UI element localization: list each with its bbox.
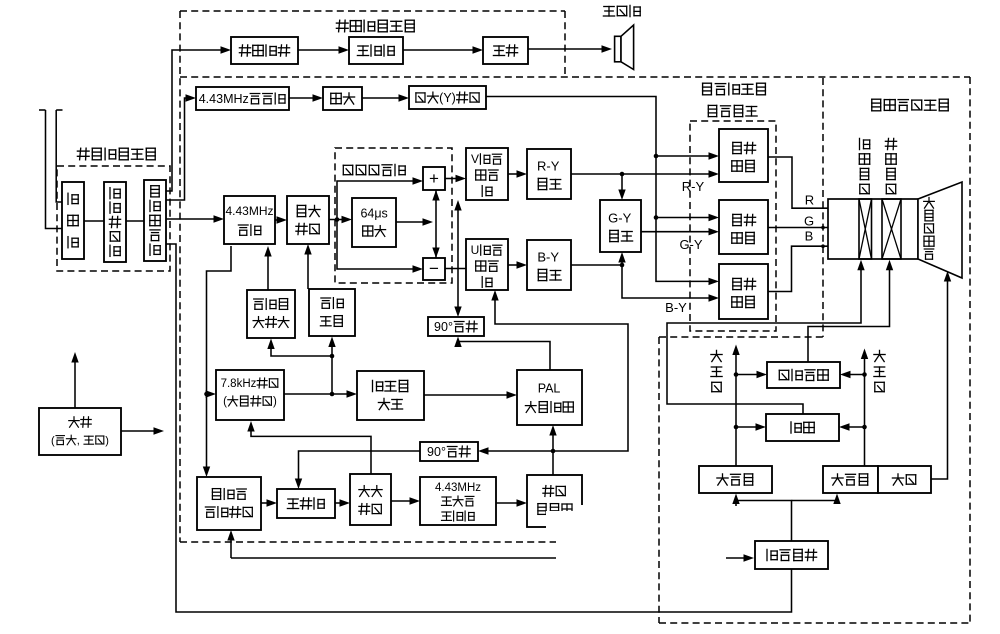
label: line blanking 行消隐 (vertical): [874, 350, 885, 361]
wire: field branch to convergence: [736, 426, 761, 428]
wire: line blanking riser: [864, 354, 866, 467]
dashed frame: scan section left edge: [658, 337, 660, 623]
block: tuner 调谐器: [62, 182, 84, 259]
wire: delayed signal riser to adder and subtractor: [435, 190, 437, 258]
wire: G-Y matrix to video output 2: [641, 231, 714, 233]
wire: U line tee down into 90 deg shifter: [457, 269, 459, 313]
svg-text:4.43MHz: 4.43MHz: [199, 92, 249, 106]
node: ident output junction: [330, 392, 335, 397]
dashed frame: right edge: [969, 77, 971, 623]
block: adder +: [423, 167, 445, 190]
wire: field blanking riser: [735, 350, 737, 467]
block: power supply 电源(整流稳压): [39, 408, 121, 455]
wire: delay to luminance amp: [362, 97, 404, 99]
block: audio IF amp 伴音中放: [231, 37, 298, 64]
block: video detector 视频检波器: [144, 180, 166, 261]
block: video output stage 1 视放末级: [719, 129, 768, 182]
wire: burst gate gating riser: [230, 535, 232, 558]
label: convergence coil 会聚线圈 (vertical): [860, 138, 870, 149]
svg-text:7.8kHz: 7.8kHz: [221, 378, 257, 390]
svg-text:(Y): (Y): [439, 91, 456, 105]
dashed frame: scan section top edge: [659, 336, 823, 338]
wire: subcarrier to U detector: [495, 295, 628, 451]
block: colour killer 自动消色: [309, 289, 355, 336]
block: video output stage 2 视放末级: [719, 200, 768, 254]
wire: lower 90 deg shifter to phase detector: [299, 451, 421, 484]
node: chroma drop junction: [204, 392, 209, 397]
block: field scan 场扫描: [699, 466, 772, 493]
block: 64us delay 64μs延时: [352, 198, 396, 247]
svg-text:R-Y: R-Y: [537, 159, 560, 174]
wire: DC amp top to ident amp: [251, 426, 371, 474]
block: V sync detector V同步检波器: [466, 148, 508, 200]
node: field junction convergence: [734, 425, 739, 430]
node: ACC branch junction: [330, 354, 335, 359]
wire: subcarrier to lower 90 deg shifter: [483, 450, 553, 452]
speaker 扬声器: [615, 25, 634, 70]
wire: amp-follower riser to PAL switch: [552, 430, 554, 475]
wire: U detector to B-Y matrix: [508, 264, 522, 266]
convergence coil crossed box: [859, 199, 872, 259]
block: R-Y matrix R-Y矩阵: [527, 149, 571, 199]
wire: ACC to bandpass control: [267, 251, 269, 290]
block: sync separator 同步分离: [755, 541, 828, 569]
wire: video detector to 4.43MHz bandpass: [166, 218, 219, 220]
label: sound channel section 伴音通道部分: [336, 20, 348, 32]
wire: video det luma tap riser: [166, 98, 191, 200]
wire: notch filter to delay: [289, 97, 318, 99]
wire: ident amp output line: [284, 393, 352, 395]
block: 4.43MHz notch filter 陷波器: [196, 87, 289, 110]
label: common channel section 公共通道部分: [77, 148, 89, 160]
wire: Y bus branch to video output 1: [656, 155, 714, 157]
wire: R-Y matrix output: [571, 173, 714, 175]
svg-text:V: V: [471, 152, 479, 166]
wire: V detector to R-Y matrix: [508, 173, 522, 175]
wire: colour killer to chroma amp: [307, 249, 309, 289]
block: phase detector 鉴相器: [277, 489, 335, 518]
block: DC amp 直流放大: [350, 474, 391, 525]
wire: antenna right feeder: [56, 109, 62, 111]
block: high voltage 高压: [878, 466, 931, 493]
block: audio power amp 低放: [483, 37, 528, 64]
wire: Y bus branch to video output 2: [656, 217, 714, 219]
block: luminance amp 亮度(Y)放大: [409, 86, 486, 109]
dashed frame: bottom edge: [659, 622, 970, 624]
CRT funnel 彩色显像管: [918, 182, 962, 278]
dashed frame: sound-channel section top edge: [180, 10, 565, 12]
wire: DC amp to oscillator: [391, 500, 415, 502]
wire: splitter to line scan: [792, 499, 838, 501]
wire: IF amp to video detector: [126, 220, 144, 222]
wire: field branch to pincushion: [736, 374, 762, 376]
wire: sync separator to scan splitter: [736, 501, 792, 542]
node: Y bus junction 2: [654, 215, 659, 220]
dashed frame: decoder section bottom edge (cut off): [180, 541, 556, 543]
svg-text:90°: 90°: [434, 320, 453, 334]
wire: discriminator to audio output: [403, 49, 478, 51]
label: deflection coil 偏转线圈 (vertical): [885, 138, 896, 149]
label: comb filter 梳状滤波器: [343, 165, 352, 174]
wire: comb input upper branch to adder: [337, 181, 418, 220]
dashed box: comb filter: [335, 148, 452, 283]
block: chroma amp 色度放大: [287, 196, 329, 244]
node: subcarrier junction: [551, 449, 556, 454]
wire: pincushion to deflection coil: [808, 264, 890, 362]
wire: video det sound tap riser: [166, 50, 226, 191]
svg-text:−: −: [429, 259, 439, 278]
dashed frame: sound-channel section right edge: [564, 11, 566, 77]
label: picture section 图像重显部分: [872, 99, 881, 111]
wire: sync separator input arrow: [726, 557, 749, 559]
dashed box: common channel section: [57, 166, 170, 271]
label: field blanking 场消隐 (vertical): [711, 350, 722, 361]
label: CRT 彩色显像管 (vertical): [924, 198, 935, 209]
svg-text:4.43MHz: 4.43MHz: [435, 482, 481, 494]
wire: riser to colour killer: [331, 342, 333, 395]
wire: comb input lower branch to subtractor: [337, 220, 418, 270]
svg-text:64μs: 64μs: [360, 206, 387, 220]
dashed frame: left edge of sound+decoder sections: [179, 11, 181, 542]
wire: R-Y branch into G-Y matrix: [621, 174, 623, 195]
block: B-Y matrix B-Y矩阵: [527, 240, 571, 290]
node: comb input junction: [335, 217, 340, 222]
svg-text:B: B: [805, 229, 814, 244]
block: line scan 行扫描: [823, 466, 878, 493]
wire: B-Y branch to video output 3: [622, 265, 714, 298]
svg-text:G-Y: G-Y: [679, 237, 702, 252]
CRT yoke assembly outer box: [828, 199, 918, 259]
block: PAL switch PAL电子开关: [517, 370, 582, 425]
node: field junction pincushion: [734, 372, 739, 377]
svg-text:B-Y: B-Y: [665, 300, 687, 315]
label: decoding matrix 解码矩阵: [708, 105, 716, 116]
wire: PAL switch top to 90 deg shifter: [458, 340, 550, 370]
deflection coil crossed box: [882, 199, 901, 259]
svg-text:G-Y: G-Y: [608, 211, 631, 226]
block: pincushion correction 枕形校正: [767, 362, 840, 388]
wire: 64us delay output: [396, 221, 427, 223]
block: video output stage 3 视放末级: [719, 264, 768, 319]
block: FM discriminator 鉴频器: [349, 37, 403, 64]
node: B-Y junction: [620, 263, 625, 268]
block: subcarrier oscillator 4.43MHz副载波振荡器: [420, 477, 496, 525]
wire: chroma amp to comb filter: [329, 219, 347, 221]
svg-text:): ): [273, 396, 277, 408]
wire: chroma drop to burst gate: [207, 246, 232, 472]
svg-text:R: R: [805, 193, 814, 208]
wire: bistable to PAL switch: [424, 394, 512, 396]
wire: burst gate to phase detector: [261, 502, 272, 504]
wire: audio IF amp to discriminator: [298, 49, 344, 51]
node: G line crossing dot: [821, 226, 825, 230]
block: 4.43MHz bandpass 带通: [224, 196, 275, 244]
node: R-Y junction: [620, 172, 625, 177]
block: burst gate amp 色同步选通放大: [197, 477, 261, 530]
wire: video tap down to sync separator: [166, 244, 792, 612]
block: 90 deg phase shifter (upper) 90°移相: [428, 317, 484, 336]
svg-text:): ): [105, 435, 109, 447]
node: line junction convergence: [862, 425, 867, 430]
wire: tuner to IF amp: [84, 220, 104, 222]
wire: antenna left feeder: [39, 109, 46, 111]
wire: audio output to speaker: [528, 48, 607, 50]
block: subtractor −: [423, 258, 445, 280]
dashed box: decoding matrix: [690, 121, 776, 331]
svg-text:PAL: PAL: [538, 381, 561, 395]
wire: power supply right arrow: [121, 430, 159, 432]
node: line junction pincushion: [862, 372, 867, 377]
svg-text:4.43MHz: 4.43MHz: [225, 204, 273, 218]
wire: video output 3 to B gun: [768, 246, 852, 291]
wire: luminance Y bus: [486, 97, 714, 282]
block: 90 deg phase shifter (lower) 90°移相: [420, 442, 478, 461]
wire: line branch to convergence: [844, 426, 865, 428]
wire: high voltage to CRT anode: [931, 276, 948, 479]
node: Y bus junction 1: [654, 154, 659, 159]
wire: branch to ACC box: [271, 344, 332, 357]
wire: adder to V sync detector: [445, 178, 461, 180]
wire: line branch to pincushion: [845, 374, 865, 376]
block: amp & follower 放大及跟随: [527, 475, 582, 527]
wire: oscillator to amp-follower: [496, 502, 522, 504]
block: ident amp 7.8kHz放大(识别放大): [216, 370, 284, 420]
svg-text:(: (: [223, 396, 227, 408]
block: bistable 双稳态电路: [357, 371, 424, 420]
wire: convergence to convergence coil: [667, 264, 861, 414]
block: U sync detector U同步检波器: [466, 239, 508, 290]
wire: B-Y branch up into G-Y matrix: [621, 257, 623, 265]
wire: B-Y matrix output: [571, 264, 622, 266]
node: B line crossing dot: [821, 244, 825, 248]
svg-text:B-Y: B-Y: [537, 250, 559, 265]
block: IF amplifier 中频放大器: [104, 182, 126, 262]
wire: phase detector to DC amp: [335, 502, 345, 504]
wire: power supply up arrow: [74, 357, 76, 408]
wire: video output 2 to G gun: [768, 228, 852, 234]
svg-text:,: ,: [77, 435, 80, 447]
svg-text:(: (: [51, 435, 55, 447]
wire: burst gate bottom feed: [231, 557, 556, 559]
svg-text:+: +: [429, 169, 439, 188]
svg-text:R-Y: R-Y: [682, 179, 705, 194]
block: G-Y matrix G-Y矩阵: [600, 200, 641, 252]
dashed frame: picture section left edge: [822, 78, 824, 337]
svg-text:G: G: [804, 214, 814, 229]
label: decoder section 解码器部分: [703, 83, 712, 95]
wire: bandpass to chroma amp: [275, 219, 282, 221]
scan artifact: white patch over amp-follower corner: [546, 511, 595, 535]
wire: V detector subcarrier feed riser: [457, 205, 459, 269]
label: speaker 扬声器: [603, 7, 614, 17]
wire: video output 1 to R gun: [768, 157, 852, 215]
svg-text:U: U: [471, 243, 480, 257]
dashed frame: decoder/picture sections top edge: [180, 76, 970, 78]
wire: subtractor to U sync detector: [445, 268, 466, 270]
block: convergence 会聚: [766, 414, 839, 441]
block: ACC 自动色度控制: [247, 290, 295, 338]
wire: chroma tap to ident amp: [206, 393, 211, 395]
svg-text:90°: 90°: [427, 445, 446, 459]
block: delay line 延时: [323, 87, 362, 110]
